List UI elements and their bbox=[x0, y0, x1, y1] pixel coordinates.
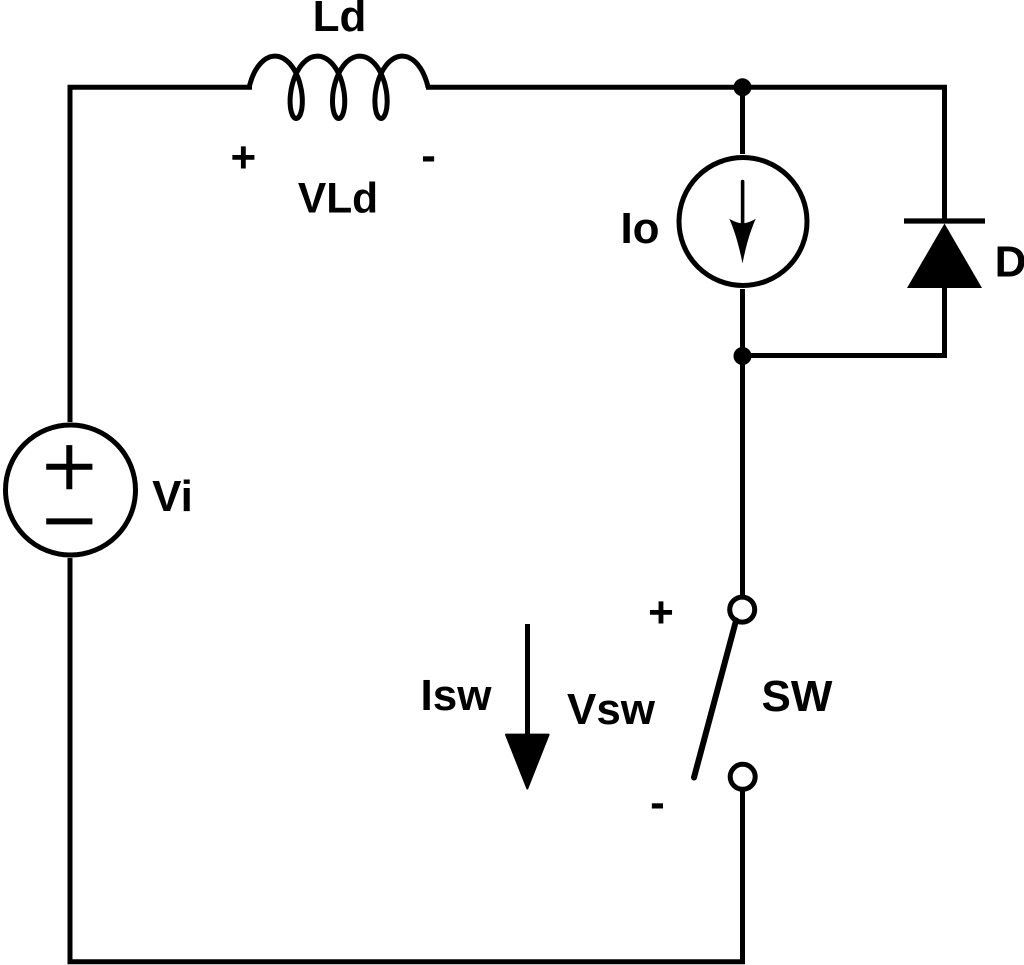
svg-text:SW: SW bbox=[762, 672, 833, 721]
wire diode bottom to node B bbox=[743, 288, 945, 356]
svg-text:-: - bbox=[650, 778, 665, 827]
diode D triangle bbox=[907, 224, 982, 289]
svg-text:Vi: Vi bbox=[152, 472, 193, 521]
wire node B to switch top bbox=[740, 289, 745, 596]
voltage source Vi circle bbox=[6, 425, 136, 555]
switch SW top terminal circle bbox=[730, 597, 755, 622]
svg-text:+: + bbox=[231, 133, 257, 182]
Isw arrow head bbox=[506, 735, 549, 789]
svg-text:-: - bbox=[421, 131, 436, 180]
switch SW blade bbox=[694, 620, 736, 777]
current source Io circle bbox=[679, 158, 807, 286]
Io arrow head bbox=[729, 219, 756, 263]
inductor Ld bbox=[249, 56, 428, 118]
svg-text:+: + bbox=[648, 588, 674, 637]
svg-text:Isw: Isw bbox=[421, 671, 493, 720]
Vi plus sign bbox=[46, 445, 92, 489]
Io arrow shaft bbox=[741, 182, 745, 225]
svg-text:D: D bbox=[995, 238, 1024, 287]
svg-text:Io: Io bbox=[620, 204, 659, 253]
svg-text:Vsw: Vsw bbox=[567, 685, 656, 734]
node B junction dot bbox=[734, 347, 752, 365]
wire node A into Io top bbox=[740, 87, 745, 154]
switch SW bottom terminal circle bbox=[730, 764, 755, 789]
Vi minus sign bbox=[46, 518, 92, 524]
diode D cathode bar bbox=[904, 218, 985, 223]
svg-text:Ld: Ld bbox=[313, 0, 367, 41]
wire left+top (Vi top to inductor start) bbox=[70, 87, 252, 422]
wire top right (inductor end to diode top) bbox=[426, 87, 945, 219]
node A junction dot bbox=[734, 78, 752, 96]
wire bottom loop (switch bottom to Vi bottom) bbox=[70, 558, 743, 962]
svg-text:VLd: VLd bbox=[298, 176, 378, 223]
Isw arrow shaft bbox=[525, 624, 530, 737]
